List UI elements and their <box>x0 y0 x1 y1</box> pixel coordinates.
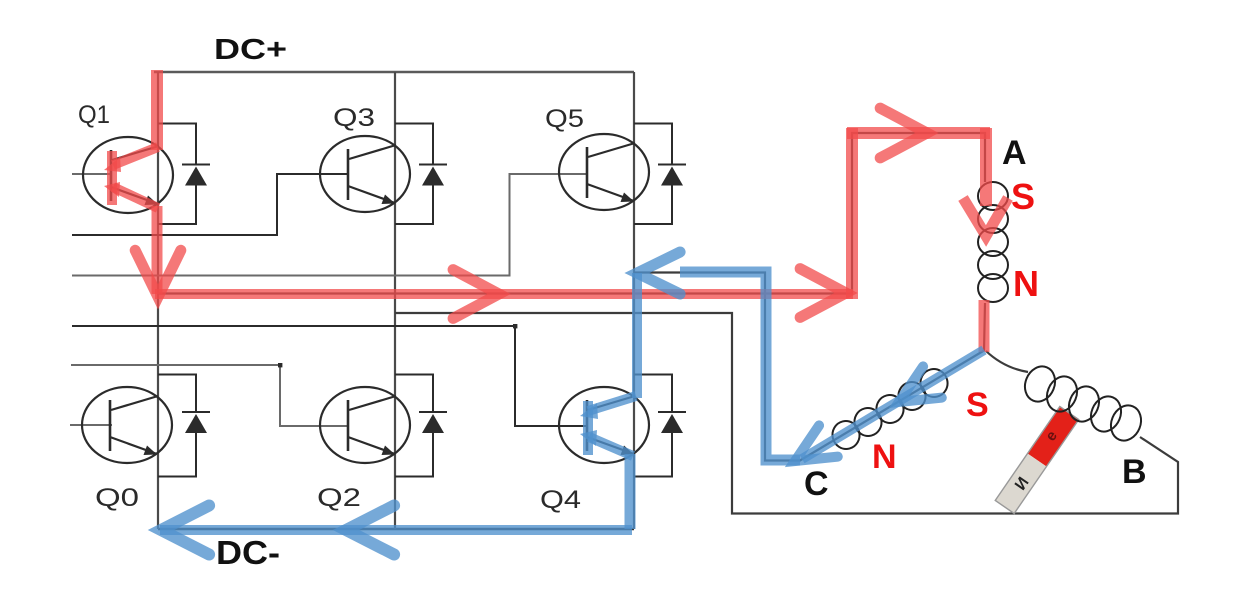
transistor Q4 <box>559 387 649 463</box>
wire Q1 base <box>72 173 112 175</box>
svg-text:Q1: Q1 <box>78 101 110 129</box>
blue path: DC- bus <box>160 525 632 535</box>
wire leg 2 (Q3/Q2 half-bridge) <box>394 72 396 529</box>
blue arrow left into leg 3 <box>637 252 680 294</box>
coil B (phase B winding) <box>1020 362 1146 445</box>
wire phase B <box>395 313 1178 514</box>
svg-text:DC+: DC+ <box>214 34 287 66</box>
blue path: star point down coil C <box>802 350 984 459</box>
diode D3 <box>395 124 447 225</box>
svg-text:Q0: Q0 <box>95 484 139 512</box>
blue arrow on coil C (at terminal C) <box>795 425 838 461</box>
diode D1 <box>158 124 210 225</box>
wire phase A <box>158 133 985 351</box>
svg-text:N: N <box>1013 263 1039 304</box>
wire Q4 base <box>72 326 587 426</box>
wire Q5 base <box>72 174 587 276</box>
transistor Q1 <box>83 137 173 213</box>
red path: coil A to star point <box>979 300 990 352</box>
blue arrow nub at Q4 collector junction <box>580 403 598 419</box>
blue path: Q4 emitter stroke <box>589 437 633 456</box>
red path: top segment toward A <box>847 127 990 139</box>
blue arrow nub at Q4 emitter junction <box>580 430 597 446</box>
red arrow nub at Q1 collector junction <box>104 157 121 172</box>
red arrow right (mid bus) <box>453 270 499 319</box>
transistor Q2 <box>320 387 410 463</box>
red path: Q1 base bar <box>107 151 117 205</box>
transistor Q0 <box>82 387 172 463</box>
red arrow into coil A <box>963 198 1008 236</box>
transistor Q3 <box>320 136 410 212</box>
svg-text:N: N <box>872 438 897 476</box>
DC+ rail <box>154 71 634 73</box>
junction Q4 base corner <box>513 324 517 328</box>
red path: down into coil A <box>980 128 992 206</box>
red path: Q1 collector stroke <box>113 147 158 165</box>
svg-text:S: S <box>966 386 989 424</box>
wire leg 1 (Q1/Q0 half-bridge) <box>157 72 159 529</box>
red path: phase A bus <box>155 289 853 299</box>
wire Q3 base <box>72 174 349 235</box>
blue path: down leg 3 to Q4 collector <box>632 273 642 398</box>
blue path: Q4 emitter down to DC- <box>625 454 636 529</box>
red arrow right (end of bus) <box>800 269 846 318</box>
blue path: C terminal up and left to leg 3 <box>680 272 800 460</box>
coil A (phase A winding) <box>978 182 1008 302</box>
red arrow right (top segment) <box>880 108 927 158</box>
svg-text:Q5: Q5 <box>545 105 584 133</box>
svg-text:A: A <box>1002 134 1027 172</box>
rotor magnet <box>995 407 1079 514</box>
diode D4 <box>634 375 686 477</box>
coil C (phase C winding) <box>830 366 951 452</box>
red arrow nub at Q1 emitter junction <box>104 182 120 197</box>
svg-text:Q2: Q2 <box>317 484 361 512</box>
blue path: Q4 collector stroke <box>588 396 636 411</box>
svg-text:C: C <box>804 465 829 503</box>
svg-text:B: B <box>1122 453 1147 491</box>
junction Q2 base corner <box>278 363 282 367</box>
wire Q0 base <box>70 424 112 426</box>
svg-text:S: S <box>1011 176 1035 217</box>
wire Q2 base <box>71 365 349 426</box>
blue path: Q4 base bar <box>583 401 593 455</box>
red path: DC+ into Q1 collector <box>151 70 163 150</box>
red path: up corner <box>846 128 858 299</box>
DC- rail <box>158 528 634 530</box>
red path: Q1 emitter stroke <box>113 187 158 208</box>
blue arrow left (DC- at leg1) <box>161 506 209 555</box>
diode D5 <box>634 124 686 225</box>
svg-text:Q4: Q4 <box>540 486 581 514</box>
wire phase C <box>634 273 984 461</box>
red arrow down at phase A node <box>135 250 181 297</box>
wire leg 3 (Q5/Q4 half-bridge) <box>633 72 635 529</box>
blue arrow on coil C (upper) <box>899 366 942 402</box>
diode D0 <box>158 375 210 477</box>
diode D2 <box>395 375 447 477</box>
blue arrow left (DC- mid) <box>346 506 394 555</box>
svg-text:Q3: Q3 <box>333 104 375 132</box>
svg-text:DC-: DC- <box>216 534 280 571</box>
red path: Q1 emitter down to phase A <box>152 206 163 294</box>
transistor Q5 <box>559 134 649 210</box>
